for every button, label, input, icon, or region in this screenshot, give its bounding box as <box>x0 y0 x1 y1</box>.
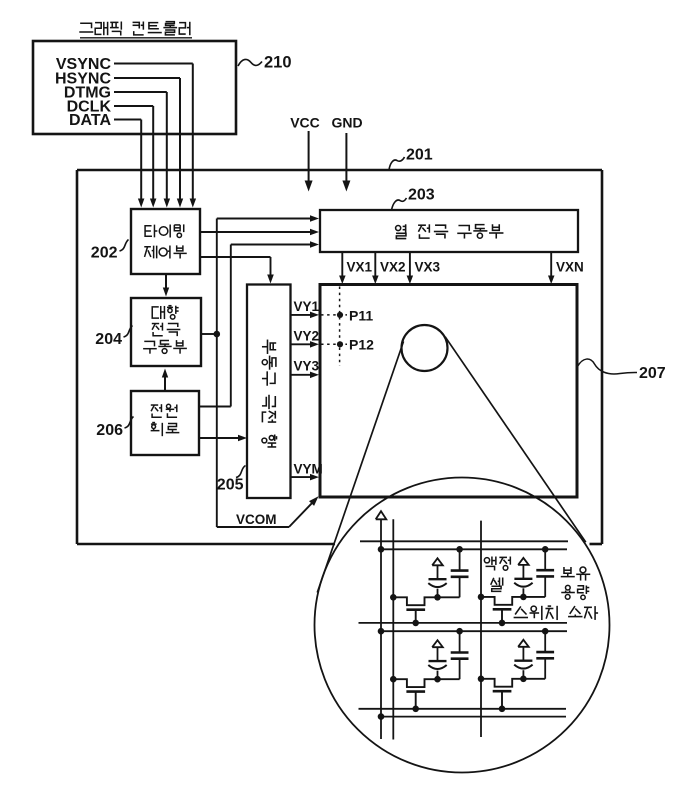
label 205 leader squiggle <box>236 466 246 478</box>
storage capacitor <box>459 631 461 652</box>
counter electrode symbol (open triangle) of LC cell <box>432 558 443 565</box>
data line X2 vertical <box>480 521 482 737</box>
dashed row locator to P11 <box>321 314 347 316</box>
wire VSYNC <box>114 63 193 65</box>
junction dot LC drain node <box>434 594 441 601</box>
svg-text:VY2: VY2 <box>294 329 320 344</box>
wire 202 to 203 (middle) <box>200 231 312 233</box>
wire HSYNC <box>114 77 180 79</box>
text storage capacitance label line2 (Korean) <box>561 585 589 599</box>
svg-text:VCC: VCC <box>290 115 320 131</box>
box 204 counter electrode driver <box>131 298 201 366</box>
svg-text:VY1: VY1 <box>294 299 320 314</box>
node P12 pixel dot <box>337 341 343 347</box>
label 204 leader squiggle <box>124 326 133 338</box>
box 203 column electrode driver <box>320 210 578 252</box>
liquid crystal cell capacitor <box>437 589 439 598</box>
box 207 LCD panel <box>320 285 577 498</box>
liquid crystal cell capacitor <box>437 671 439 680</box>
svg-text:VXN: VXN <box>556 260 584 275</box>
junction dot TFT gate on gate bus <box>499 706 506 713</box>
junction dot common bus row3 at counter electrode line <box>378 713 385 720</box>
label 203 leader squiggle <box>392 198 407 210</box>
gate bus line row1 <box>359 622 568 624</box>
svg-text:VX1: VX1 <box>347 260 373 275</box>
box 205 row electrode driver <box>247 285 291 499</box>
wire DATA <box>114 119 141 121</box>
storage capacitor <box>544 549 546 570</box>
liquid crystal cell capacitor <box>522 670 524 679</box>
text column electrode driver (Korean) <box>396 224 504 238</box>
storage capacitor <box>544 631 546 652</box>
common bus line row1 <box>381 548 567 550</box>
wire DTMG <box>114 91 167 93</box>
junction dot TFT source on data line <box>478 594 485 601</box>
junction dot TFT gate on gate bus <box>412 620 419 627</box>
junction dot TFT source on data line <box>390 676 397 683</box>
label: graphic controller title (Korean) <box>79 21 190 35</box>
svg-text:203: 203 <box>408 187 435 204</box>
svg-text:206: 206 <box>96 422 123 439</box>
junction dots on common bus row1 <box>378 546 385 553</box>
svg-text:VX2: VX2 <box>380 260 406 275</box>
svg-text:VX3: VX3 <box>415 260 441 275</box>
wire VCOM to panel backplane <box>217 526 289 528</box>
wire column line VX3 <box>409 252 411 277</box>
svg-text:GND: GND <box>331 115 362 131</box>
junction dot LC drain node <box>434 676 441 683</box>
storage capacitor <box>459 549 461 570</box>
junction dots on common bus row2 <box>378 628 385 635</box>
magnifier cone right line <box>445 337 586 542</box>
junction dot TFT gate on gate bus <box>412 706 419 713</box>
gate bus line row2 <box>359 708 567 710</box>
wire VCOM riser from 204 to 203 and to panel (net VCOM) <box>216 219 218 528</box>
text timing controller line2 (Korean) <box>144 245 187 258</box>
wire VCC supply arrow <box>308 131 310 182</box>
common bus line row3 stub <box>381 716 566 718</box>
junction dot TFT gate on gate bus <box>499 620 506 627</box>
svg-text:207: 207 <box>639 365 666 382</box>
junction dot TFT source on data line <box>390 594 397 601</box>
svg-text:VYM: VYM <box>294 462 323 477</box>
magnifier cone left line <box>317 342 403 593</box>
text storage capacitance label line1 (Korean) <box>561 567 591 581</box>
wire column line VX1 <box>341 252 343 277</box>
svg-text:P12: P12 <box>349 337 374 353</box>
TFT switch element (bar, channel notch, gate) <box>393 597 459 605</box>
svg-text:204: 204 <box>95 331 122 348</box>
text power circuit line1 (Korean) <box>151 404 177 417</box>
wire row line VY2 <box>291 343 312 345</box>
junction dot LC drain node <box>520 594 527 601</box>
gate bus line row0 <box>360 540 568 542</box>
node P11 pixel dot <box>337 312 343 318</box>
wire row line VY1 <box>291 314 312 316</box>
box 210 graphic controller <box>33 41 236 134</box>
counter electrode symbol (open triangle) of LC cell <box>518 558 529 565</box>
wire 206 to 204 <box>164 377 166 391</box>
text counter electrode driver line3 (Korean) <box>143 340 187 353</box>
liquid crystal cell capacitor <box>522 588 524 597</box>
TFT switch element (bar, channel notch, gate) <box>393 679 459 687</box>
wire 204 output to VCOM riser <box>201 333 217 335</box>
TFT switch element (bar, channel notch, gate) <box>481 679 545 687</box>
junction dot VCOM riser / 204 output <box>214 331 221 338</box>
text counter electrode driver line2 (Korean) <box>152 323 181 336</box>
text counter electrode driver line1 (Korean) <box>152 306 178 319</box>
wire 202 to 204 <box>165 274 167 289</box>
text row electrode driver (Korean, rotated) <box>262 340 277 447</box>
text timing controller line1 (Korean) <box>145 224 184 237</box>
wire row line VY3 <box>291 374 312 376</box>
junction dot TFT source on data line <box>478 676 485 683</box>
svg-text:201: 201 <box>406 147 433 164</box>
dashed row locator to P12 <box>321 343 347 345</box>
common bus line row2 <box>381 630 567 632</box>
label 210 leader squiggle <box>238 59 262 66</box>
wire 202 to 205 (row driver control) <box>200 256 271 258</box>
dashed column locator line for pixels P11/P12 <box>339 287 341 367</box>
svg-text:205: 205 <box>217 477 244 494</box>
box 206 power circuit <box>131 391 199 455</box>
text switch element label (Korean) <box>514 606 598 620</box>
label 207 leader squiggle <box>578 359 638 374</box>
counter electrode symbol (open triangle) of LC cell <box>518 640 529 647</box>
svg-text:VCOM: VCOM <box>236 512 277 527</box>
wire row line VYM <box>291 476 312 478</box>
wire column line VXN <box>550 252 552 277</box>
svg-text:DATA: DATA <box>69 112 112 129</box>
wire 206 riser to 203 <box>199 406 231 408</box>
magnifier big circle (zoomed pixel array) <box>315 478 610 773</box>
wire GND supply arrow <box>345 133 347 182</box>
box 201 LCD module outline (bottom edge interrupted by magnifier circle) <box>77 169 602 172</box>
TFT switch element (bar, channel notch, gate) <box>481 597 545 605</box>
counter electrode symbol (open triangle) of LC cell <box>432 640 443 647</box>
label 201 leader squiggle <box>389 157 405 170</box>
magnifier small circle on panel <box>402 325 448 371</box>
label 202 leader squiggle <box>120 240 129 252</box>
svg-text:202: 202 <box>91 245 118 262</box>
wire DCLK <box>114 105 153 107</box>
svg-text:210: 210 <box>264 54 292 72</box>
counter electrode line vertical (with arrow symbol) <box>376 511 387 519</box>
wire column line VX2 <box>374 252 376 277</box>
text liquid crystal cell label line2 (Korean) <box>491 577 503 591</box>
label 206 leader squiggle <box>125 417 134 429</box>
svg-text:VY3: VY3 <box>294 359 320 374</box>
text liquid crystal cell label line1 (Korean) <box>484 556 510 570</box>
wire 206 to 205 <box>199 437 240 439</box>
svg-text:P11: P11 <box>349 307 373 323</box>
text power circuit line2 (Korean) <box>151 423 180 437</box>
title underline <box>80 37 192 39</box>
data line X1 vertical <box>392 519 394 739</box>
box 202 timing controller <box>131 209 200 274</box>
junction dot LC drain node <box>520 676 527 683</box>
